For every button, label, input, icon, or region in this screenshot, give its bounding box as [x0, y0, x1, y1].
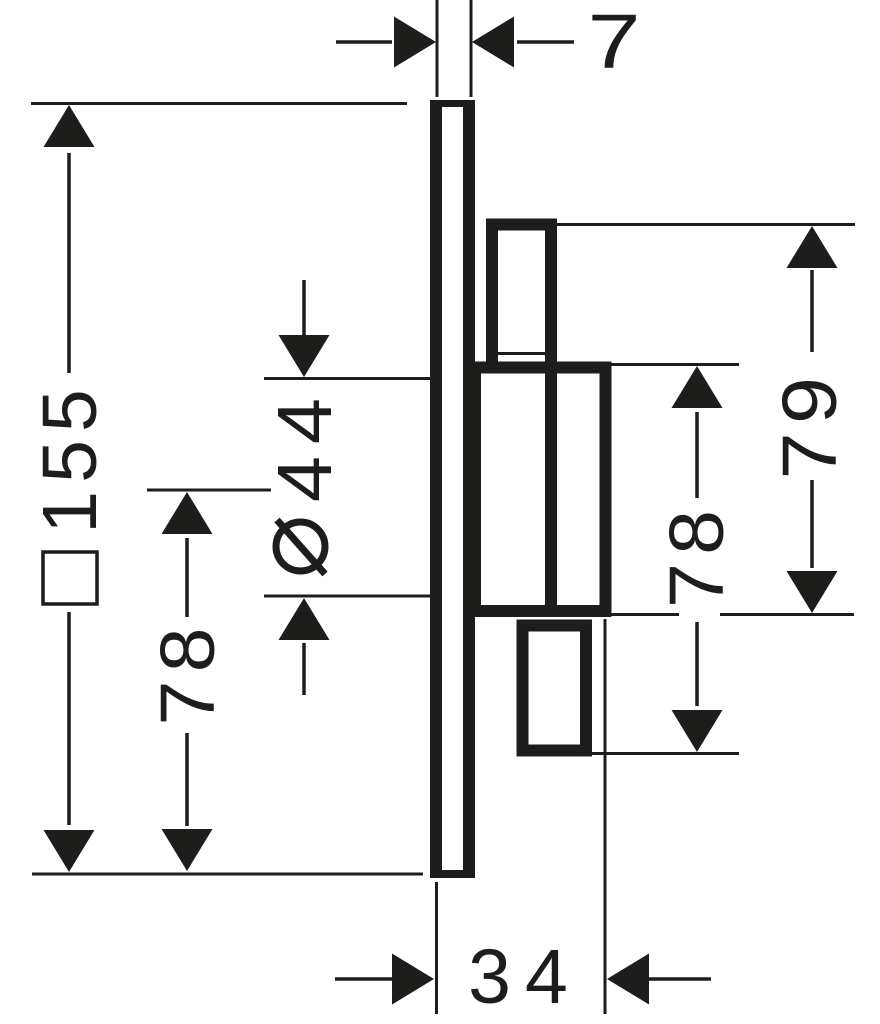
- arrowhead left 78 dim bottom: [162, 829, 213, 871]
- arrowhead right 78 dim top: [672, 366, 723, 408]
- label diameter symbol circle: [276, 522, 325, 571]
- dimension line of right 78 dim (lower): [695, 622, 699, 706]
- svg-text:34: 34: [468, 934, 568, 1020]
- dimension line of right 78 dim (upper): [695, 412, 699, 498]
- wall plate cross-section top edge: [430, 100, 475, 107]
- svg-text:44: 44: [261, 398, 347, 502]
- dimension line of 155 dim (upper): [67, 153, 71, 373]
- reference line top of Ø44 dim: [264, 377, 431, 380]
- arrowhead 34 dim right: [607, 954, 649, 1005]
- svg-text:79: 79: [768, 377, 854, 479]
- dimension line of 7 dim (right tail): [517, 40, 574, 44]
- reference line top of right 78 dim: [611, 363, 739, 366]
- reference line bottom of 79 dim (segment 2): [720, 613, 854, 616]
- upper handle cross-section: [492, 225, 551, 612]
- dimension line of Ø44 dim (lower tail): [302, 643, 306, 695]
- upper handle inner bottom line: [497, 352, 546, 355]
- svg-text:78: 78: [145, 627, 231, 725]
- reference line top of 155 dim: [31, 102, 407, 105]
- wall plate cross-section bottom edge: [430, 870, 475, 878]
- reference line bottom of right 78 dim: [592, 752, 739, 755]
- extension line below body for 34 dim: [604, 619, 607, 1014]
- reference line top of 79 dim: [551, 223, 855, 226]
- svg-text:78: 78: [654, 510, 740, 608]
- dimension line of 34 dim (right tail): [648, 977, 711, 981]
- extension line left of 7 dim: [436, 0, 439, 97]
- valve body cross-section: [475, 368, 606, 612]
- lower handle cross-section: [523, 626, 587, 751]
- svg-text:7: 7: [587, 0, 640, 85]
- reference line bottom of 79 dim (segment 1): [611, 613, 679, 616]
- dimension line of left 78 dim (lower): [185, 733, 189, 826]
- arrowhead left 78 dim top: [162, 492, 213, 534]
- arrowhead Ø44 dim bottom: [279, 598, 330, 640]
- dimension line of left 78 dim (upper): [185, 538, 189, 617]
- arrowhead 79 dim top: [787, 226, 838, 268]
- arrowhead 7 dim left: [394, 17, 436, 68]
- arrowhead right 78 dim bottom: [672, 710, 723, 752]
- arrowhead 155 dim top: [44, 105, 95, 147]
- dimension line of 79 dim (upper): [810, 270, 814, 352]
- label square symbol of 155: [43, 552, 97, 604]
- wall plate cross-section left face: [430, 101, 442, 878]
- arrowhead 79 dim bottom: [787, 571, 838, 613]
- arrowhead 7 dim right: [472, 17, 514, 68]
- svg-text:155: 155: [27, 389, 113, 533]
- label diameter symbol slash: [277, 520, 325, 574]
- reference line bottom of Ø44 dim: [264, 595, 431, 598]
- arrowhead 155 dim bottom: [44, 830, 95, 872]
- reference line top of left 78 dim (plate centre): [147, 489, 271, 492]
- dimension line of 34 dim (left tail): [335, 977, 393, 981]
- extension line right of 7 dim: [470, 0, 473, 97]
- arrowhead Ø44 dim top: [279, 335, 330, 377]
- dimension line of Ø44 dim (upper tail): [302, 280, 306, 336]
- arrowhead 34 dim left: [392, 954, 434, 1005]
- dimension line of 155 dim (lower): [67, 612, 71, 825]
- extension line below plate for 34 dim: [435, 882, 438, 1014]
- reference line bottom (155/78 dims): [32, 873, 423, 876]
- wall plate cross-section right face: [463, 101, 475, 878]
- dimension line of 7 dim (left tail): [336, 40, 392, 44]
- dimension line of 79 dim (lower): [810, 480, 814, 568]
